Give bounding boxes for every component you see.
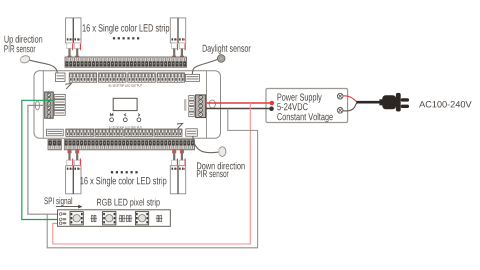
terminal group at x=98.5 (99, 73, 127, 82)
wire: red feed loop to pixel strip far end (53, 103, 251, 244)
strip resistor at x=119.8 (119, 215, 126, 221)
wire: V+ red controller to PSU (206, 102, 270, 104)
direction arrow (bottom) (177, 123, 183, 128)
wire: daylight sensor to controller (192, 59, 217, 74)
terminal group at x=127.8 (128, 73, 156, 82)
PSU AC screw terminals (337, 93, 343, 99)
bottom small terminal block (sensor) (48, 140, 61, 150)
strip resistor at x=157.0 (156, 215, 163, 221)
power supply box (266, 89, 348, 123)
direction arrow (top) (65, 84, 71, 89)
wire: PSU to plug (red) (343, 96, 357, 102)
RGB LED chip at x=135.4 (135, 212, 148, 225)
terminal group at x=124.6 (125, 129, 153, 136)
LED strip pair bottom-left (66, 166, 81, 194)
wire: green SPI data controller to pixel strip (22, 100, 59, 219)
right mounting oval (209, 100, 215, 108)
wire: controller to down PIR sensor (193, 136, 219, 153)
right power terminal block (196, 95, 206, 118)
caption 17-32 STRIP LED OUTPUT (109, 126, 142, 128)
wire: grey GND controller to pixel strip (28, 105, 59, 214)
LCD display (113, 98, 137, 110)
RGB LED chip at x=102.6 (103, 212, 116, 225)
label: AC100-240V (419, 101, 472, 108)
wire: V- black controller to PSU (206, 108, 270, 110)
dots (bottom) (111, 171, 138, 173)
RGB LED pixel strip body (58, 210, 171, 227)
top inner label box (power input) (56, 73, 66, 82)
controller body outline (34, 71, 221, 139)
label: Power Supply 5-24VDC Constant Voltage (278, 93, 322, 103)
daylight sensor (218, 55, 225, 62)
label: RGB LED pixel strip (97, 199, 160, 208)
terminal group at x=65.8 (66, 129, 94, 136)
wires: LED strip pair top-left to top terminal strip (67, 43, 81, 59)
left SPI terminal block (45, 92, 54, 118)
SPI arrow (56, 206, 79, 208)
label: Daylight sensor (203, 45, 251, 54)
wire: black/grey ground loop to pixel strip (47, 109, 257, 248)
bottom-left label box (sensor/switch input) (47, 129, 64, 136)
dots (top) (113, 37, 139, 39)
LED strip pair top-left (66, 18, 81, 43)
bottom-right label box (PIR input) (186, 129, 198, 136)
wires: bottom terminal strip to LED strip pair bottom-left (67, 149, 81, 165)
button labels M < > (110, 114, 113, 117)
label: 16 x Single color LED strip (top) (83, 24, 170, 34)
down direction PIR sensor (219, 147, 226, 157)
wires: LED strip pair top-right to top terminal strip (172, 43, 186, 59)
controller end-cap dividers (42, 71, 44, 139)
wire: up PIR sensor to controller (30, 60, 58, 73)
top terminal strip (01-16 outputs) (65, 57, 187, 67)
terminal group at x=154.0 (154, 129, 182, 136)
top-right label box (sensor set input) (186, 74, 200, 81)
strip resistor at x=91.5 (90, 215, 97, 221)
PSU DC terminals (270, 101, 275, 106)
right block pin labels (184, 96, 194, 117)
buttons (110, 118, 114, 122)
terminal group at x=157.1 (157, 73, 185, 82)
wire: PSU to plug (black) (343, 103, 357, 111)
power cord (356, 101, 380, 104)
label: Up direction PIR sensor (5, 35, 43, 44)
left block pin labels (54, 94, 65, 115)
LED strip pair top-right (170, 18, 185, 43)
wire: red +V into pixel strip (short) (53, 222, 59, 224)
label: SPI signal (44, 197, 72, 206)
wires: bottom terminal strip to LED strip pair bottom-right (172, 149, 186, 165)
bottom terminal strip (17-32 outputs) (64, 140, 194, 150)
AC plug (379, 93, 409, 112)
terminal group at x=69.2 (69, 73, 97, 82)
LED strip pair bottom-right (170, 166, 185, 194)
terminal group at x=95.2 (95, 129, 123, 136)
up direction PIR sensor (19, 55, 30, 64)
RGB LED chip at x=70.0 (70, 212, 83, 225)
left mounting oval (35, 101, 39, 110)
label: 16 x Single color LED strip (bottom) (80, 177, 166, 187)
strip resistor at x=126.6 (125, 215, 132, 221)
label: Down direction PIR sensor (197, 162, 245, 169)
caption 01-16 STRIP LED OUTPUT (109, 84, 142, 86)
strip input terminals (59, 213, 66, 225)
